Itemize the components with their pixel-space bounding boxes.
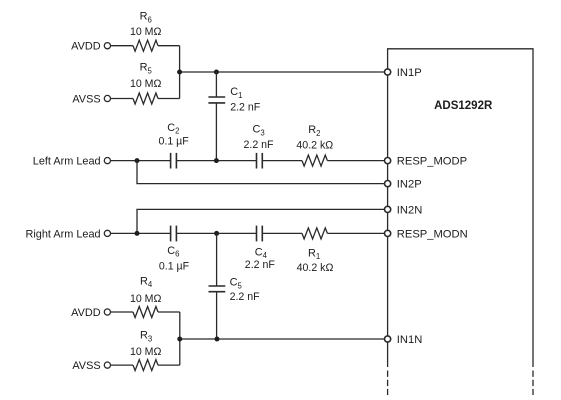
svg-text:AVSS: AVSS (72, 360, 100, 372)
wire Left Arm Lead to C2 (111, 160, 171, 162)
svg-text:10 MΩ: 10 MΩ (130, 26, 162, 38)
resistor R1 (302, 228, 388, 239)
capacitor C5 (209, 233, 226, 339)
svg-text:10 MΩ: 10 MΩ (130, 293, 162, 305)
wire vertical connector R6/R5 (179, 46, 181, 99)
junction C5 bottom node (215, 337, 220, 342)
IC right edge dashed continuation (532, 371, 534, 396)
wire C6 to C4 (176, 232, 256, 234)
pin IN2P (385, 179, 422, 191)
pin IN2N (385, 204, 423, 216)
capacitor C6 (171, 226, 177, 242)
svg-text:RESP_MODP: RESP_MODP (397, 156, 467, 168)
wire Right Arm Lead to C6 (111, 232, 171, 234)
wire AVDD (bottom) lead (111, 311, 133, 313)
capacitor C3 (257, 153, 263, 169)
terminal AVDD (top) (71, 41, 110, 53)
svg-text:0.1 µF: 0.1 µF (159, 136, 190, 148)
wire IN1P net: resistor junction to IN1P pin (180, 71, 388, 73)
svg-text:AVDD: AVDD (71, 41, 101, 53)
wire C2 to C3 (176, 160, 256, 162)
capacitor C4 (257, 226, 263, 242)
junction C5 top node (214, 231, 219, 236)
svg-text:Right Arm Lead: Right Arm Lead (26, 228, 101, 240)
terminal Left Arm Lead (33, 156, 111, 168)
pin RESP_MODP (385, 156, 468, 168)
svg-text:IN2P: IN2P (397, 179, 422, 191)
capacitor C2 (171, 153, 177, 169)
terminal AVSS (top) (72, 93, 110, 105)
junction R6/R5 node (177, 70, 182, 75)
wire AVDD (top) lead (111, 45, 133, 47)
svg-text:ADS1292R: ADS1292R (434, 100, 493, 112)
resistor R3 (133, 360, 180, 371)
svg-text:2.2 nF: 2.2 nF (230, 102, 261, 114)
wire C3 to R2 (262, 160, 302, 162)
junction R4/R3 node (177, 337, 182, 342)
resistor R5 (133, 93, 180, 104)
junction Left Arm Lead node (135, 158, 140, 163)
svg-text:IN2N: IN2N (397, 204, 423, 216)
svg-text:40.2 kΩ: 40.2 kΩ (296, 140, 333, 152)
svg-text:10 MΩ: 10 MΩ (130, 346, 162, 358)
pin RESP_MODN (385, 228, 468, 240)
capacitor C1 (208, 72, 225, 161)
terminal Right Arm Lead (26, 228, 111, 240)
pin IN1P (385, 67, 422, 79)
svg-text:IN1N: IN1N (397, 334, 423, 346)
IC left edge dashed continuation (387, 371, 389, 396)
resistor R2 (302, 155, 388, 166)
pin IN1N (385, 334, 423, 346)
wire IN2N branch (137, 209, 388, 233)
svg-text:2.2 nF: 2.2 nF (245, 259, 276, 271)
wire C4 to R1 (262, 232, 302, 234)
IC U1 ADS1292R outline (388, 49, 533, 367)
junction Right Arm Lead node (135, 231, 140, 236)
svg-text:RESP_MODN: RESP_MODN (397, 228, 468, 240)
svg-text:IN1P: IN1P (397, 67, 422, 79)
svg-text:AVSS: AVSS (72, 93, 100, 105)
terminal AVDD (bottom) (71, 307, 110, 319)
svg-text:10 MΩ: 10 MΩ (130, 78, 162, 90)
svg-text:2.2 nF: 2.2 nF (230, 291, 261, 303)
svg-text:40.2 kΩ: 40.2 kΩ (297, 262, 334, 274)
svg-text:Left Arm Lead: Left Arm Lead (33, 156, 101, 168)
wire vertical connector R4/R3 (179, 312, 181, 365)
wire AVSS (bottom) lead (111, 364, 133, 366)
resistor R6 (133, 40, 180, 51)
svg-text:AVDD: AVDD (71, 307, 101, 319)
junction C1 bottom node (214, 158, 219, 163)
svg-text:2.2 nF: 2.2 nF (244, 139, 275, 151)
resistor R4 (133, 307, 180, 318)
terminal AVSS (bottom) (72, 360, 110, 372)
svg-text:0.1 µF: 0.1 µF (159, 260, 190, 272)
wire AVSS (top) lead (111, 98, 133, 100)
junction C1 top node (214, 70, 219, 75)
wire IN2P branch (137, 161, 388, 184)
wire IN1N net: resistor junction to IN1N pin (180, 338, 388, 340)
